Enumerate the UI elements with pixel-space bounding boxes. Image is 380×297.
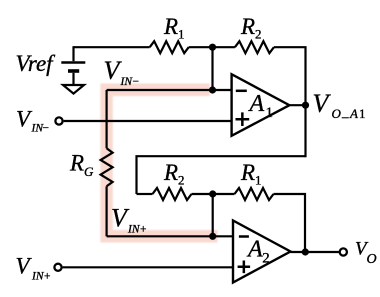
- svg-text:V: V: [313, 89, 332, 118]
- svg-text:1: 1: [255, 173, 262, 188]
- terminal VIN-: [55, 117, 62, 124]
- svg-text:O: O: [332, 106, 342, 121]
- svg-text:−: −: [43, 123, 50, 135]
- resistor R1 (top): [150, 41, 189, 53]
- wire top rail from Vref corner to R1: [74, 46, 150, 48]
- svg-text:1: 1: [266, 105, 274, 121]
- Vref source symbol: [61, 46, 85, 85]
- svg-text:V: V: [16, 107, 33, 132]
- svg-text:Vref: Vref: [16, 51, 57, 76]
- wire RG vertical bottom segment: [105, 186, 107, 236]
- op-amp A1 triangle: [232, 74, 290, 136]
- highlight path from node VIN- through RG to node VIN+: [107, 90, 218, 237]
- ground (arrow style): [63, 85, 84, 94]
- svg-text:A: A: [349, 106, 358, 121]
- wire A1 output down and left to second stage: [137, 156, 306, 194]
- node A2 minus input VIN+: [209, 233, 216, 240]
- svg-text:1: 1: [359, 106, 366, 121]
- wire RG vertical top segment: [105, 90, 107, 148]
- terminal VIN+: [54, 264, 61, 271]
- svg-text:2: 2: [255, 27, 262, 42]
- svg-text:−: −: [133, 76, 140, 88]
- node junction R2/R1 (bottom): [209, 190, 216, 197]
- A1 minus sign: [236, 90, 247, 93]
- node junction R1/R2 (top): [209, 44, 216, 51]
- wire A1 output to node: [289, 104, 305, 106]
- svg-text:1: 1: [178, 27, 185, 42]
- svg-text:R: R: [240, 160, 255, 185]
- resistor R2 (bottom): [153, 188, 192, 200]
- wire A2 output to terminal VO: [291, 251, 340, 253]
- wire R1 right down to A2 output: [274, 194, 306, 252]
- svg-text:+: +: [140, 224, 147, 236]
- wire VIN+ terminal to A2 plus input: [63, 266, 233, 268]
- svg-text:G: G: [84, 164, 94, 179]
- wire A1 minus input (highlighted) from corner to op-amp: [107, 89, 232, 91]
- svg-text:IN: IN: [120, 76, 134, 88]
- svg-text:R: R: [240, 14, 255, 39]
- svg-text:R: R: [163, 160, 178, 185]
- wire R2 to right vertical down to A1 output: [274, 47, 306, 157]
- svg-text:2: 2: [178, 173, 185, 188]
- terminal VO: [340, 248, 347, 255]
- wire between R2 and R1 (bottom): [192, 193, 235, 195]
- svg-text:A: A: [248, 91, 265, 117]
- node A1 output: [302, 102, 309, 109]
- svg-text:O: O: [367, 252, 377, 267]
- svg-text:IN: IN: [31, 271, 45, 283]
- svg-text:+: +: [44, 271, 51, 283]
- A2 minus sign: [239, 235, 249, 238]
- A1 plus sign: [236, 112, 250, 126]
- wire between R1 and R2 (top): [189, 46, 235, 48]
- svg-text:V: V: [16, 254, 33, 279]
- A2 plus sign: [238, 261, 251, 274]
- svg-text:R: R: [69, 151, 84, 176]
- wire junction down to A2 minus node: [212, 194, 214, 236]
- wire vertical from R1/R2 junction down to A1 minus node: [211, 47, 213, 90]
- svg-text:A: A: [246, 237, 263, 263]
- op-amp A2 triangle: [233, 221, 291, 283]
- svg-text:2: 2: [262, 251, 270, 267]
- wire VIN- terminal to A1 plus input: [64, 120, 232, 122]
- node A2 output: [302, 248, 309, 255]
- svg-text:IN: IN: [127, 224, 141, 236]
- svg-text:R: R: [163, 14, 178, 39]
- resistor RG: [101, 148, 113, 186]
- node A1 minus input VIN-: [209, 86, 216, 93]
- resistor R1 (bottom): [235, 188, 274, 200]
- svg-text:_: _: [341, 104, 349, 119]
- resistor R2 (top): [235, 41, 274, 53]
- wire second stage left lead: [137, 193, 153, 195]
- wire A2 minus input (highlighted) from corner to op-amp: [107, 235, 233, 237]
